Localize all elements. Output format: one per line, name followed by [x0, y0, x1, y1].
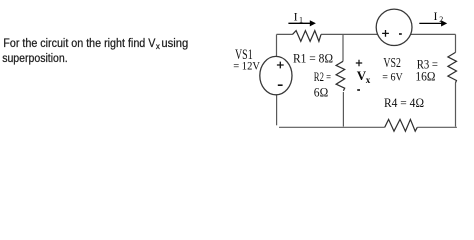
- wire: right column (top corner to R3, R3 to bottom corner): [455, 34, 457, 126]
- wire: left column bottom (VS1 bottom to bottom-left corner): [276, 95, 278, 126]
- problem statement text: [2, 36, 188, 65]
- node Vx plus mark: [356, 60, 362, 66]
- svg-text:6Ω: 6Ω: [314, 85, 328, 100]
- wire: middle branch upper stub (junction to R2 top): [342, 34, 344, 61]
- svg-text:x: x: [366, 75, 371, 85]
- svg-text:superposition.: superposition.: [2, 51, 68, 65]
- svg-text:16Ω: 16Ω: [415, 69, 435, 84]
- VS2 minus sign: [399, 33, 402, 35]
- VS2 plus sign: [382, 30, 389, 37]
- current arrow I1: [288, 20, 316, 26]
- svg-text:= 6V: = 6V: [382, 70, 403, 84]
- label R3 = 16 ohm: [415, 56, 438, 83]
- svg-text:x: x: [156, 42, 160, 51]
- node Vx minus mark: [357, 89, 360, 91]
- svg-text:I: I: [434, 9, 438, 23]
- label VS2 = 6V: [382, 56, 403, 84]
- svg-text:For the circuit on the right f: For the circuit on the right find V: [3, 36, 156, 50]
- resistor R3 (16 ohm, right vertical): [448, 52, 457, 82]
- VS1 minus sign: [278, 84, 283, 86]
- svg-text:R2 =: R2 =: [314, 69, 331, 84]
- current arrow I2: [419, 20, 447, 26]
- wire: middle branch lower stub (R2 bottom to bottom wire): [342, 92, 344, 127]
- svg-text:I: I: [294, 9, 298, 23]
- wire: top side (left corner to right corner): [277, 33, 456, 35]
- svg-text:= 12V: = 12V: [233, 59, 260, 73]
- resistor R4 (4 ohm, bottom): [385, 119, 418, 131]
- label VS1 = 12V: [233, 47, 260, 73]
- wire: bottom side right segment: [417, 126, 457, 128]
- voltage source VS2 (6V, top right): [376, 9, 412, 45]
- wire: bottom side left segment: [279, 126, 385, 128]
- svg-text:1: 1: [299, 16, 303, 25]
- svg-text:2: 2: [439, 15, 443, 24]
- label I2: [434, 9, 444, 24]
- resistor R1 (8 ohm, top): [293, 31, 322, 42]
- svg-text:R4 = 4Ω: R4 = 4Ω: [384, 95, 424, 110]
- label I1: [294, 9, 303, 24]
- svg-text:using: using: [161, 36, 188, 50]
- node Vx label: [357, 68, 371, 85]
- wire: left column top (corner down to VS1 top): [276, 34, 278, 56]
- resistor R2 (6 ohm, middle vertical): [336, 61, 345, 91]
- svg-text:R1 = 8Ω: R1 = 8Ω: [293, 51, 333, 66]
- VS1 plus sign: [277, 62, 284, 69]
- voltage source VS1 (12V, left): [260, 56, 292, 94]
- label R2 = 6 ohm: [314, 69, 331, 100]
